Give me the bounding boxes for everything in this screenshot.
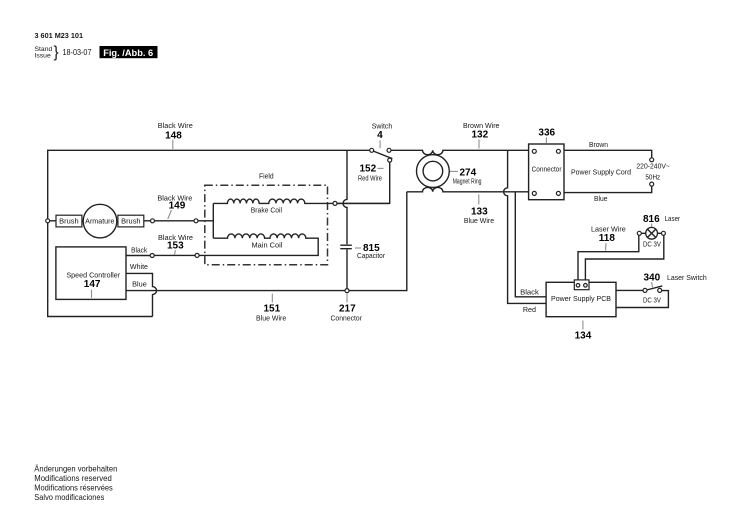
laser wire right <box>585 235 663 283</box>
svg-text:Power Supply Cord: Power Supply Cord <box>571 169 631 176</box>
label Black Wire 148 <box>158 123 193 149</box>
svg-text:Black Wire: Black Wire <box>158 123 193 130</box>
capacitor 815 <box>340 245 352 288</box>
label 336 <box>538 128 555 144</box>
svg-text:118: 118 <box>599 233 616 244</box>
node terminal on left rail <box>46 219 50 223</box>
svg-text:18-03-07: 18-03-07 <box>63 48 92 57</box>
mains terminal bottom <box>650 182 654 186</box>
label Black Wire 149 <box>157 195 192 219</box>
svg-text:White: White <box>130 264 148 271</box>
blue wire 133 under magnet ring to connector <box>407 187 529 191</box>
node terminal brake coil / red wire <box>333 201 337 205</box>
svg-text:Blue: Blue <box>132 282 147 289</box>
laser 816 lamp <box>637 227 665 239</box>
svg-text:4: 4 <box>377 130 383 141</box>
svg-text:149: 149 <box>169 200 186 211</box>
svg-text:Red Wire: Red Wire <box>358 175 382 182</box>
white wire from controller <box>126 273 157 316</box>
svg-text:Blue: Blue <box>594 196 608 203</box>
svg-text:148: 148 <box>165 130 182 141</box>
svg-text:}: } <box>54 44 59 61</box>
svg-text:816: 816 <box>643 214 660 225</box>
label 152 Red Wire <box>358 164 384 183</box>
label 815 Capacitor <box>355 243 386 260</box>
mains terminal top <box>650 158 654 162</box>
svg-text:Capacitor: Capacitor <box>357 253 386 260</box>
label Black at pcb <box>520 289 539 296</box>
capacitor branch vertical wire with hop over red wire <box>343 150 347 244</box>
label 816 Laser <box>643 214 681 227</box>
wire top after switch to connector <box>391 150 529 154</box>
label Black Wire 153 <box>158 235 193 255</box>
armature motor circle <box>83 204 117 238</box>
label Switch 4 <box>372 123 393 148</box>
svg-text:Änderungen vorbehalten: Änderungen vorbehalten <box>34 464 117 473</box>
magnet ring 274 <box>417 155 450 188</box>
svg-text:Magnet Ring: Magnet Ring <box>453 179 482 186</box>
label 133 Blue Wire <box>464 195 494 226</box>
svg-text:134: 134 <box>575 331 592 342</box>
wire armature to field, black wire 149 <box>151 219 214 223</box>
label Brown <box>589 142 608 149</box>
label DC 3V at laser switch <box>643 297 661 304</box>
svg-text:Main Coil: Main Coil <box>252 243 283 250</box>
blue wire 151 from controller <box>126 290 345 292</box>
svg-text:Blue Wire: Blue Wire <box>256 316 286 323</box>
svg-text:Laser Switch: Laser Switch <box>667 275 707 282</box>
svg-text:340: 340 <box>644 273 661 284</box>
svg-text:220-240V~: 220-240V~ <box>636 163 670 170</box>
label 340 Laser Switch <box>644 273 707 288</box>
red pcb wire vertical with hop over blue wire <box>504 150 546 303</box>
label Red at pcb <box>523 307 536 314</box>
svg-text:Issue: Issue <box>35 53 51 60</box>
svg-text:153: 153 <box>167 240 184 251</box>
svg-text:132: 132 <box>472 130 489 141</box>
connector 336 box <box>529 144 564 200</box>
field junction vertical wire <box>212 203 214 238</box>
brake coil <box>213 199 333 214</box>
label 274 Magnet Ring <box>450 168 482 186</box>
svg-text:Modifications reserved: Modifications reserved <box>34 474 112 483</box>
pcb top terminal block <box>574 280 589 290</box>
switch 4 <box>370 148 393 162</box>
blue wire from mains <box>564 186 652 193</box>
main coil <box>199 234 318 256</box>
svg-text:Brush: Brush <box>121 219 141 226</box>
brush right box <box>118 215 151 227</box>
issue date block <box>35 44 92 61</box>
label Blue <box>594 196 608 203</box>
svg-text:274: 274 <box>460 168 477 179</box>
brown wire to mains <box>564 150 652 158</box>
red wire 152 from switch <box>337 162 390 203</box>
label 151 Blue Wire <box>256 294 286 323</box>
svg-text:336: 336 <box>538 128 555 139</box>
svg-text:Brush: Brush <box>59 219 79 226</box>
svg-text:152: 152 <box>360 164 377 175</box>
svg-text:Laser: Laser <box>665 216 681 223</box>
svg-text:DC 3V: DC 3V <box>643 241 661 248</box>
svg-text:133: 133 <box>471 207 488 218</box>
red wire segment through hop to node <box>337 202 389 204</box>
svg-text:Field: Field <box>259 174 274 181</box>
svg-text:217: 217 <box>339 304 356 315</box>
svg-text:Power Supply PCB: Power Supply PCB <box>551 296 611 303</box>
svg-text:Salvo modificaciones: Salvo modificaciones <box>34 493 104 502</box>
figure label box Fig./Abb. 6 <box>100 46 158 59</box>
label Blue at controller <box>132 282 147 289</box>
black wire 153 <box>126 254 195 258</box>
footer notices <box>34 464 117 502</box>
laser switch 340 wiring <box>616 286 668 308</box>
blue wire continuing to magnet ring branch <box>349 192 407 291</box>
svg-text:Connector: Connector <box>532 167 563 174</box>
label 220-240V~ 50Hz <box>636 163 670 181</box>
node terminal main coil black wire 153 <box>195 253 199 257</box>
speed controller box 147 <box>56 247 126 300</box>
label Field <box>259 174 274 181</box>
svg-text:Armature: Armature <box>85 219 114 226</box>
label DC 3V at laser <box>643 241 661 248</box>
label Power Supply Cord <box>571 169 631 176</box>
title part number 3 601 M23 101 <box>35 31 84 40</box>
label 217 Connector <box>331 294 363 323</box>
svg-text:Modifications réservées: Modifications réservées <box>34 484 113 493</box>
svg-text:Red: Red <box>523 307 536 314</box>
label Laser Wire 118 <box>591 227 626 251</box>
svg-text:Fig. /Abb. 6: Fig. /Abb. 6 <box>103 48 153 59</box>
svg-text:Connector: Connector <box>331 316 363 323</box>
brush left box <box>50 215 82 227</box>
node 217 connector terminal on blue wire <box>345 289 349 293</box>
label Black at controller <box>131 248 148 255</box>
svg-text:Black: Black <box>520 289 539 296</box>
svg-text:147: 147 <box>84 279 101 290</box>
bottom return wire <box>47 316 153 318</box>
field dash-dot box <box>205 185 328 265</box>
svg-text:Brown: Brown <box>589 142 608 149</box>
label White <box>130 264 148 271</box>
svg-text:3 601 M23 101: 3 601 M23 101 <box>35 31 84 40</box>
svg-text:DC 3V: DC 3V <box>643 297 661 304</box>
wire top black wire 148 horizontal <box>48 149 370 151</box>
label 134 <box>575 321 592 342</box>
left rail wire <box>47 150 49 317</box>
svg-text:50Hz: 50Hz <box>645 175 660 182</box>
svg-text:Brake Coil: Brake Coil <box>251 208 283 215</box>
svg-text:151: 151 <box>264 304 281 315</box>
svg-text:Black: Black <box>131 248 148 255</box>
power supply pcb box 134 <box>546 282 616 316</box>
laser wire 118 left <box>578 235 639 283</box>
black pcb wire vertical <box>515 192 546 297</box>
svg-text:Blue Wire: Blue Wire <box>464 218 494 225</box>
label Brown Wire 132 <box>463 123 500 149</box>
